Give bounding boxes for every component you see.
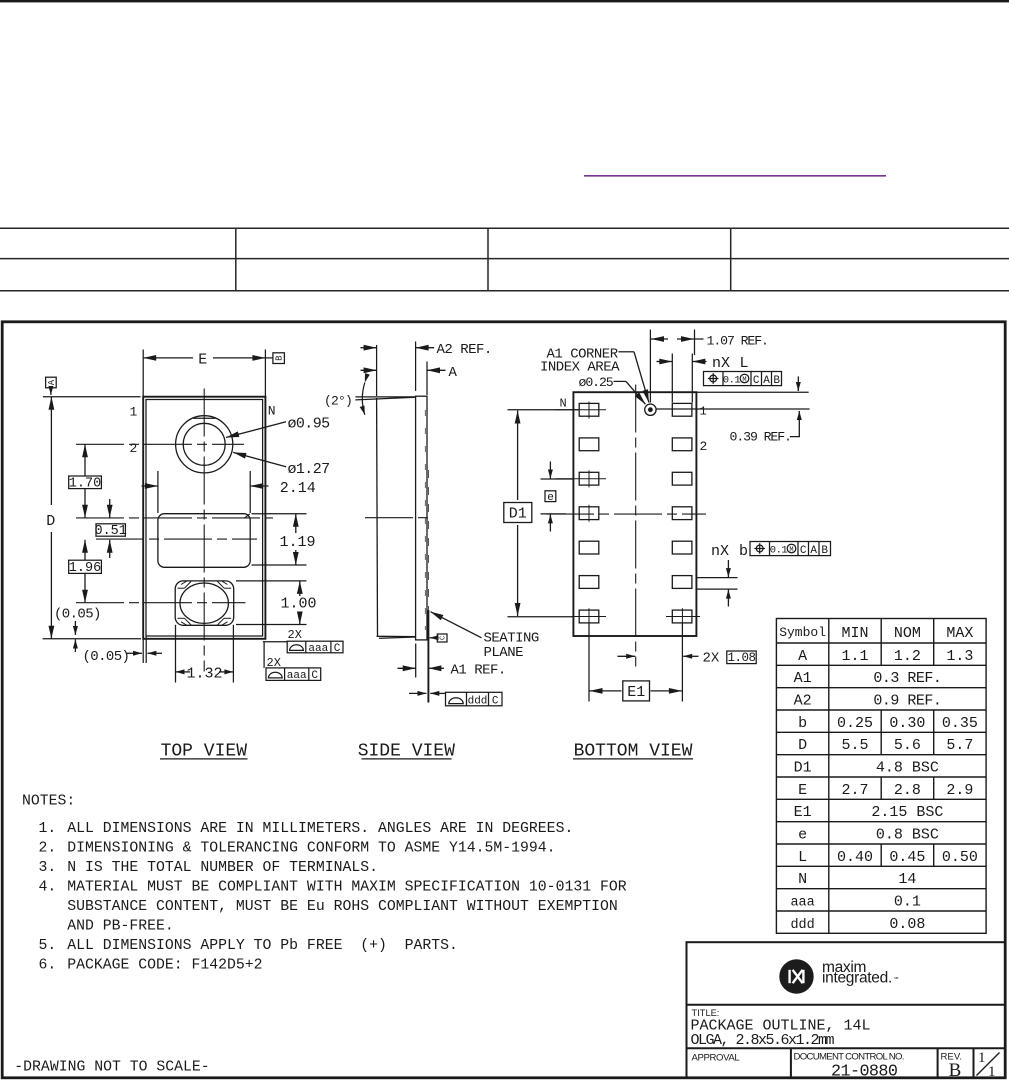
svg-text:2.8: 2.8 — [894, 782, 921, 799]
svg-text:PACKAGE CODE: F142D5+2: PACKAGE CODE: F142D5+2 — [67, 958, 262, 974]
A dimension — [361, 369, 377, 371]
middle rounded pad — [158, 514, 250, 568]
svg-text:E1: E1 — [794, 804, 812, 821]
svg-text:1.: 1. — [39, 821, 57, 837]
top view vertical centerline — [203, 389, 205, 672]
svg-text:℠: ℠ — [894, 977, 900, 984]
svg-text:ddd: ddd — [790, 918, 814, 933]
2.14 dimension ext lines — [157, 471, 159, 513]
svg-text:14: 14 — [898, 871, 916, 888]
svg-text:C: C — [492, 695, 499, 707]
1.00 dimension ext lines — [236, 580, 307, 582]
svg-text:e: e — [798, 827, 807, 844]
svg-text:A: A — [449, 365, 458, 381]
svg-text:5.5: 5.5 — [841, 737, 868, 754]
svg-text:M: M — [789, 547, 793, 555]
D top extension line — [43, 396, 141, 398]
svg-text:0.40: 0.40 — [837, 849, 873, 866]
svg-text:2X: 2X — [288, 628, 302, 642]
substrate hidden dashes — [424, 410, 426, 630]
svg-text:NOTES:: NOTES: — [22, 794, 75, 810]
top view package outline (inner) — [146, 400, 263, 637]
svg-text:C: C — [311, 670, 318, 682]
svg-text:0.08: 0.08 — [889, 916, 925, 933]
svg-text:1.08: 1.08 — [727, 651, 755, 665]
svg-text:1.19: 1.19 — [279, 534, 315, 551]
svg-text:aaa: aaa — [308, 643, 328, 655]
svg-text:aaa: aaa — [287, 670, 307, 682]
nX L dimension arrows — [657, 361, 673, 363]
terminal pads right column — [672, 403, 692, 622]
svg-text:A: A — [798, 648, 807, 665]
svg-text:2X: 2X — [703, 651, 720, 667]
position tolerance FCF (top) — [704, 372, 782, 386]
svg-text:D: D — [798, 737, 807, 754]
svg-text:0.1: 0.1 — [894, 894, 921, 911]
svg-text:1.1: 1.1 — [841, 648, 868, 665]
D dimension line — [50, 397, 52, 505]
A1 ext line — [415, 644, 417, 678]
1.32 dimension ext lines — [175, 625, 177, 683]
svg-text:ALL DIMENSIONS APPLY TO Pb FRE: ALL DIMENSIONS APPLY TO Pb FREE (+) PART… — [67, 938, 458, 954]
terminal pads left column — [579, 403, 599, 622]
svg-text:3.: 3. — [39, 860, 57, 876]
top view package outline (outer) — [143, 397, 265, 639]
svg-text:M: M — [742, 377, 746, 385]
svg-text:Symbol: Symbol — [779, 625, 826, 640]
A ext line — [426, 362, 428, 396]
mold body top sloped line (2 deg) — [355, 397, 415, 400]
svg-text:NOM: NOM — [894, 625, 921, 642]
e dimension lines — [541, 478, 574, 480]
svg-text:D: D — [46, 513, 55, 530]
table header row — [779, 625, 978, 933]
mid pad corner tick — [244, 514, 249, 518]
svg-text:1: 1 — [978, 1050, 986, 1066]
A2 ext lines — [376, 345, 378, 396]
ball flat chord — [193, 417, 215, 419]
svg-text:0.35: 0.35 — [942, 715, 978, 732]
svg-text:0.39 REF.: 0.39 REF. — [730, 429, 791, 444]
svg-text:nX: nX — [712, 355, 730, 372]
2X aaa C feature control frame 1 — [263, 641, 287, 643]
svg-text:0.50: 0.50 — [942, 849, 978, 866]
top view ball circle centerline — [76, 443, 244, 445]
A1 REF dimension — [398, 667, 416, 669]
left edge extension below package — [142, 639, 144, 663]
svg-text:E: E — [198, 351, 207, 368]
lower pad rounded rect — [175, 581, 234, 625]
svg-text:E: E — [798, 782, 807, 799]
e boxed label — [545, 491, 556, 502]
svg-text:1.00: 1.00 — [280, 595, 316, 612]
svg-text:B: B — [274, 355, 284, 361]
mold body bottom sloped line — [379, 637, 416, 638]
ddd flatness arrows — [409, 692, 427, 694]
svg-text:nX: nX — [711, 543, 729, 560]
svg-text:2: 2 — [130, 441, 138, 456]
purple link underline — [584, 175, 886, 177]
ball outer circle — [176, 416, 233, 473]
svg-text:DOCUMENT CONTROL NO.: DOCUMENT CONTROL NO. — [794, 1051, 904, 1062]
lower pad corner hatching — [178, 581, 232, 625]
bottom view outline — [573, 392, 696, 636]
substrate body — [416, 396, 427, 640]
svg-text:N: N — [560, 396, 567, 410]
svg-text:ø0.25: ø0.25 — [579, 375, 614, 390]
svg-text:PLANE: PLANE — [484, 645, 524, 661]
1.32 dimension — [176, 671, 191, 673]
1.96 dimension — [84, 540, 86, 560]
svg-text:0.25: 0.25 — [837, 715, 873, 732]
mold body bottom edge — [377, 635, 416, 637]
2X aaa C feature control frame 2 — [263, 642, 265, 668]
0.51 dimension — [109, 499, 111, 518]
A1 corner index ball — [645, 404, 656, 415]
svg-text:MATERIAL MUST BE COMPLIANT WIT: MATERIAL MUST BE COMPLIANT WITH MAXIM SP… — [67, 880, 627, 896]
svg-text:b: b — [798, 715, 807, 732]
svg-text:A1: A1 — [794, 670, 812, 687]
svg-text:e: e — [547, 492, 554, 504]
svg-text:integrated.: integrated. — [822, 970, 892, 987]
svg-text:5.: 5. — [39, 938, 57, 954]
svg-text:-DRAWING NOT TO SCALE-: -DRAWING NOT TO SCALE- — [14, 1059, 209, 1075]
svg-text:2.: 2. — [39, 841, 57, 857]
svg-text:A: A — [47, 379, 57, 385]
svg-text:1: 1 — [988, 1064, 996, 1080]
datum B flag — [265, 357, 273, 359]
svg-text:0.3 REF.: 0.3 REF. — [873, 670, 941, 687]
E dimension line with arrows — [143, 357, 193, 359]
side view centerline — [365, 517, 432, 519]
top page rule — [0, 0, 1009, 2]
svg-text:1.2: 1.2 — [894, 648, 921, 665]
svg-text:2: 2 — [700, 439, 708, 454]
A2 dimension — [361, 347, 377, 349]
datum C flag at seating plane — [430, 637, 438, 639]
header table (empty) — [0, 228, 1009, 290]
svg-text:0.1: 0.1 — [770, 545, 788, 557]
datum A flag — [46, 377, 57, 388]
svg-text:5.6: 5.6 — [894, 737, 921, 754]
svg-text:L: L — [798, 849, 807, 866]
svg-text:1.70: 1.70 — [69, 477, 101, 492]
svg-text:ø0.95: ø0.95 — [288, 415, 331, 432]
E dimension ext lines — [142, 350, 144, 397]
svg-text:2.14: 2.14 — [280, 480, 316, 497]
svg-text:5.7: 5.7 — [946, 737, 973, 754]
svg-text:1: 1 — [130, 405, 138, 420]
svg-text:b: b — [739, 543, 748, 560]
svg-text:1.07 REF.: 1.07 REF. — [707, 333, 768, 348]
svg-text:A: A — [810, 545, 817, 557]
1.70 dimension — [84, 444, 86, 476]
svg-text:aaa: aaa — [790, 896, 814, 911]
mold body top reference line — [355, 396, 415, 398]
1.19 dimension ext lines — [252, 513, 307, 515]
svg-text:(0.05): (0.05) — [83, 649, 130, 665]
lower shape centerline — [76, 602, 246, 604]
svg-text:1.3: 1.3 — [946, 648, 973, 665]
1.07 REF ext lines — [649, 330, 651, 403]
svg-text:4.8 BSC: 4.8 BSC — [876, 760, 939, 777]
svg-text:ALL DIMENSIONS ARE IN MILLIMET: ALL DIMENSIONS ARE IN MILLIMETERS. ANGLE… — [67, 821, 573, 837]
svg-text:2.9: 2.9 — [946, 782, 973, 799]
D1 boxed label — [504, 503, 532, 523]
svg-text:4.: 4. — [39, 880, 57, 896]
svg-text:N: N — [268, 404, 276, 419]
svg-text:B: B — [773, 375, 780, 387]
angle arc with arrows — [362, 383, 365, 415]
svg-text:B: B — [949, 1060, 962, 1081]
svg-text:0.8 BSC: 0.8 BSC — [876, 827, 939, 844]
svg-text:SUBSTANCE CONTENT, MUST BE Eu: SUBSTANCE CONTENT, MUST BE Eu ROHS COMPL… — [67, 899, 618, 915]
svg-text:0.51: 0.51 — [94, 524, 126, 539]
position tolerance FCF (right) — [750, 542, 831, 556]
svg-text:APPROVAL: APPROVAL — [692, 1052, 741, 1063]
ddd C feature control frame — [446, 692, 503, 706]
bottom view horizontal centerline — [546, 513, 706, 515]
svg-text:OLGA, 2.8x5.6x1.2mm: OLGA, 2.8x5.6x1.2mm — [691, 1032, 835, 1049]
drawing sheet frame — [2, 322, 1005, 1078]
svg-text:0.1: 0.1 — [723, 375, 741, 387]
svg-text:DIMENSIONING & TOLERANCING CON: DIMENSIONING & TOLERANCING CONFORM TO AS… — [67, 841, 555, 857]
maxim integrated logo — [779, 959, 813, 993]
svg-text:A1 REF.: A1 REF. — [451, 663, 506, 679]
svg-text:(0.05): (0.05) — [54, 607, 101, 623]
svg-text:(2°): (2°) — [324, 394, 352, 409]
svg-text:B: B — [821, 545, 828, 557]
svg-text:0.9 REF.: 0.9 REF. — [873, 693, 941, 710]
svg-text:C: C — [800, 545, 807, 557]
svg-text:MAX: MAX — [946, 625, 973, 642]
svg-text:C: C — [753, 375, 760, 387]
D1 ext lines — [508, 409, 580, 411]
b dimension arrows — [727, 560, 729, 577]
svg-text:A2 REF.: A2 REF. — [437, 342, 492, 358]
svg-text:2.7: 2.7 — [841, 782, 868, 799]
svg-text:C: C — [334, 643, 341, 655]
svg-text:INDEX AREA: INDEX AREA — [540, 360, 620, 376]
0.39 REF dimension — [797, 377, 799, 392]
svg-text:2.15 BSC: 2.15 BSC — [871, 804, 943, 821]
package horizontal centerline — [76, 517, 273, 519]
svg-text:0.30: 0.30 — [889, 715, 925, 732]
D1 dimension line — [517, 411, 519, 501]
svg-text:C: C — [439, 636, 447, 640]
b dimension ext lines — [696, 577, 737, 579]
mid pad centerline — [96, 538, 257, 540]
1.00 dimension — [299, 581, 301, 596]
lower pad ellipse — [180, 583, 228, 623]
svg-text:1.32: 1.32 — [186, 665, 222, 682]
pad centerline crosses (left rows 1,3,7 / right row 7) — [555, 402, 700, 626]
nX L ext lines — [671, 354, 673, 403]
1.19 dimension — [295, 514, 297, 533]
svg-text:N IS THE TOTAL NUMBER OF TERMI: N IS THE TOTAL NUMBER OF TERMINALS. — [67, 860, 378, 876]
svg-text:MIN: MIN — [841, 625, 868, 642]
svg-text:TITLE:: TITLE: — [692, 1008, 720, 1018]
svg-text:A2: A2 — [794, 693, 812, 710]
svg-text:E1: E1 — [627, 684, 645, 701]
svg-text:L: L — [740, 355, 749, 372]
svg-text:0.45: 0.45 — [889, 849, 925, 866]
0.39 REF ext lines — [696, 391, 808, 393]
seating plane line — [427, 610, 429, 703]
svg-text:1: 1 — [700, 405, 707, 419]
svg-text:21-0880: 21-0880 — [831, 1062, 898, 1081]
2X 1.08 dimension — [618, 655, 636, 657]
2.14 dimension arrows — [142, 485, 158, 487]
svg-text:D1: D1 — [794, 760, 812, 777]
svg-text:6.: 6. — [39, 958, 57, 974]
svg-text:1.96: 1.96 — [69, 561, 101, 576]
seating plane leader — [431, 612, 482, 638]
svg-text:A: A — [763, 375, 770, 387]
svg-text:N: N — [798, 871, 807, 888]
E1 dimension — [590, 690, 622, 692]
svg-text:ø1.27: ø1.27 — [288, 461, 330, 478]
svg-text:D1: D1 — [509, 506, 527, 523]
1.07 REF dimension — [651, 338, 668, 340]
bottom view vertical centerline — [635, 385, 637, 667]
ball inner circle — [183, 423, 225, 465]
svg-text:ddd: ddd — [468, 695, 488, 707]
svg-text:AND PB-FREE.: AND PB-FREE. — [67, 919, 174, 935]
E1 ext lines — [588, 623, 590, 701]
mold body left edge — [376, 398, 379, 636]
D bottom extension line — [43, 638, 141, 640]
